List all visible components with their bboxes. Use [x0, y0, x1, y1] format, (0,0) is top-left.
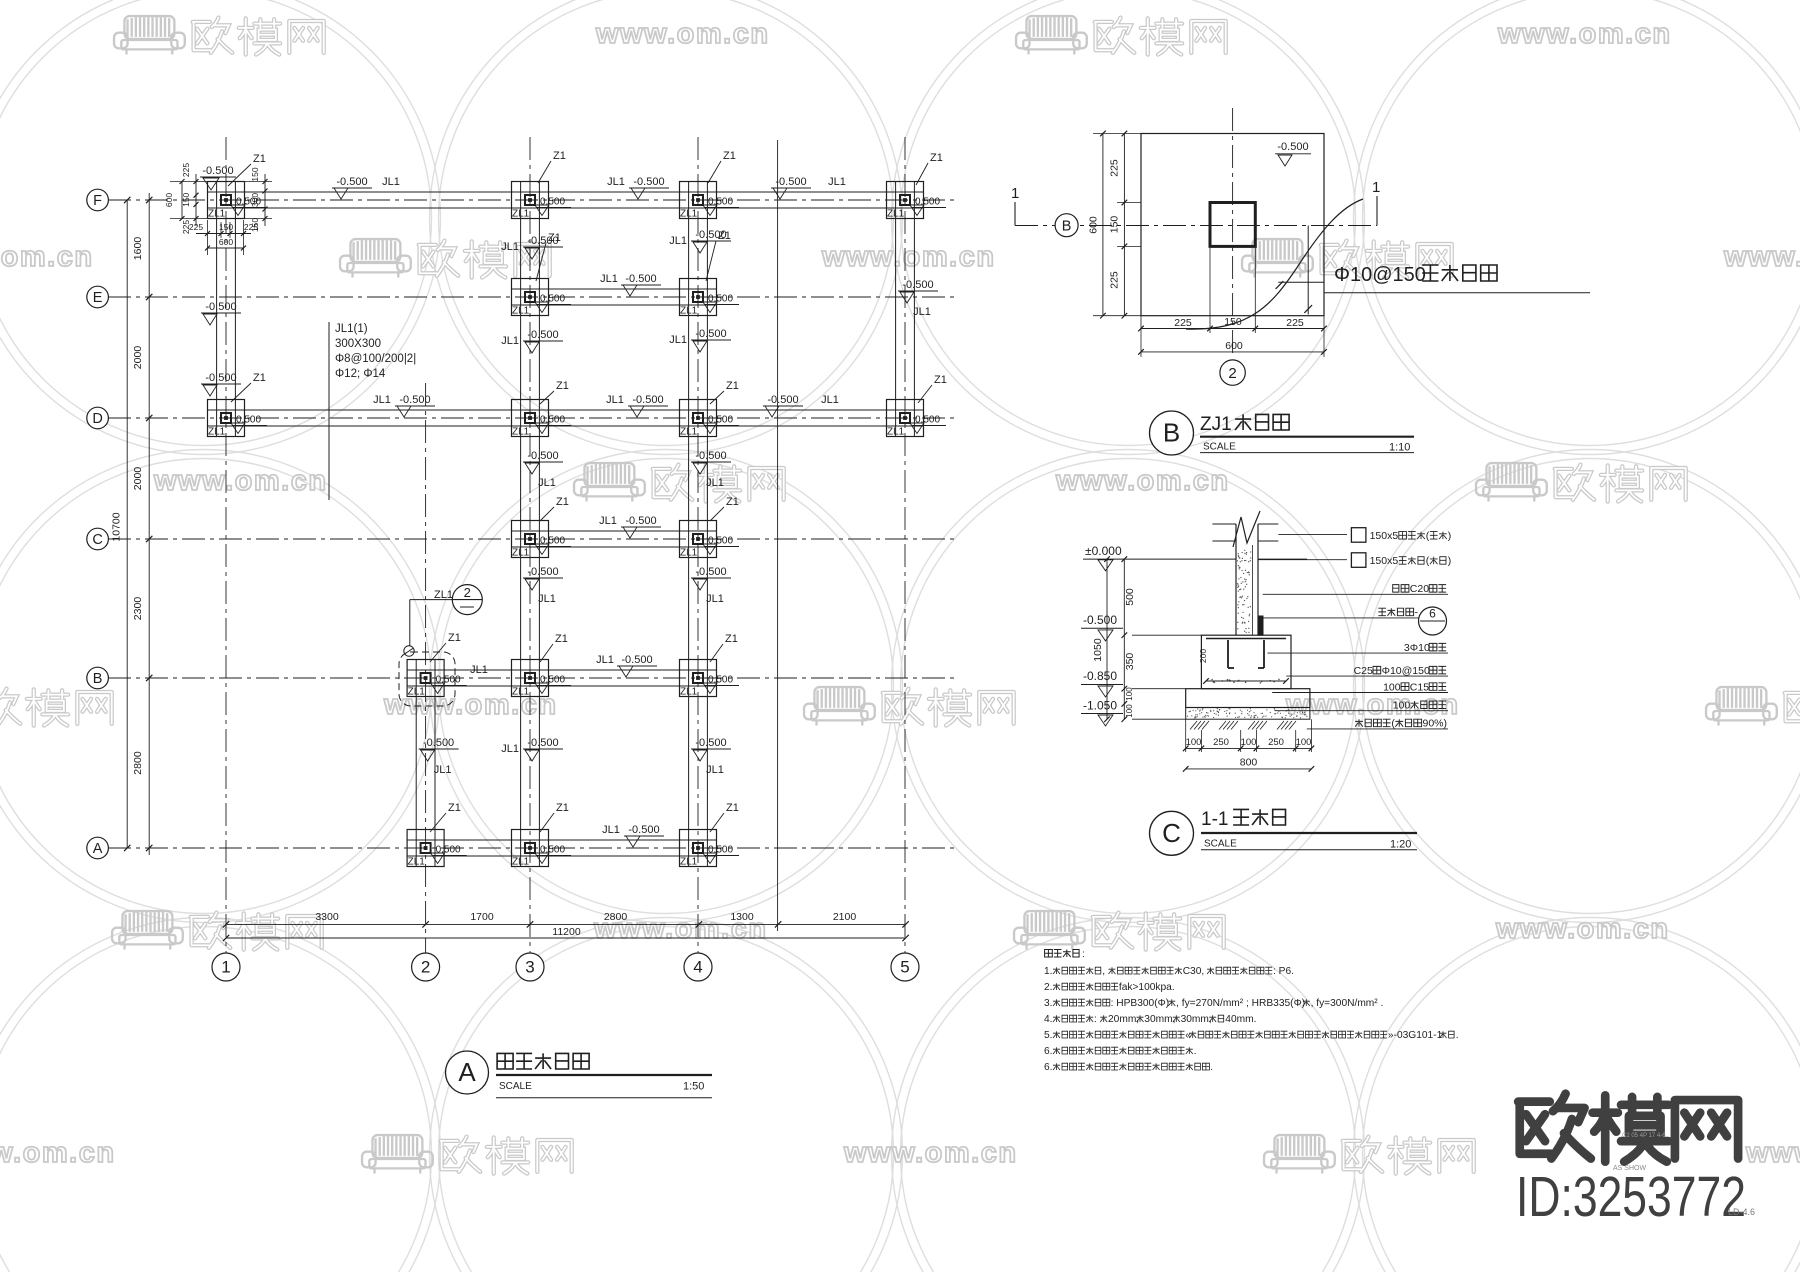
- beam level mark D 4-5: [763, 394, 839, 417]
- svg-text:0.500: 0.500: [540, 675, 565, 686]
- svg-text:3: 3: [525, 958, 534, 977]
- detail B dimension 600 left: [1088, 131, 1142, 319]
- beam level mark F 1-3: [332, 176, 400, 199]
- svg-text:-0.500: -0.500: [399, 394, 430, 406]
- svg-text:11200: 11200: [552, 926, 581, 938]
- svg-text:Z1: Z1: [723, 150, 736, 162]
- svg-text:600: 600: [219, 237, 233, 247]
- svg-text:SCALE: SCALE: [1204, 839, 1237, 850]
- svg-text:Z1: Z1: [448, 802, 461, 814]
- elevation mark at F1: [200, 165, 236, 190]
- grid line A: [108, 847, 958, 849]
- svg-text:2800: 2800: [132, 751, 144, 775]
- svg-text:JL1: JL1: [538, 477, 556, 489]
- svg-text:-0.500: -0.500: [621, 654, 652, 666]
- svg-text:JL1: JL1: [828, 176, 846, 188]
- beam JL1 grid 2: [416, 660, 435, 867]
- svg-text:0.500: 0.500: [915, 415, 940, 426]
- dimension column left (1600/2000/2000/2300/2800): [132, 193, 152, 855]
- svg-text:1: 1: [1011, 185, 1019, 202]
- grid line C: [108, 538, 958, 540]
- svg-text:-1.050: -1.050: [1083, 699, 1117, 713]
- callout ZL1 detail bubble 2: [399, 585, 482, 706]
- design note 4: [1044, 1014, 1256, 1025]
- svg-text:.: .: [1456, 1030, 1459, 1041]
- svg-text:www.om.cn: www.om.cn: [1055, 465, 1230, 497]
- column footing ZL1 at E3: [512, 279, 572, 317]
- svg-text:»-03G101-1: »-03G101-1: [1388, 1030, 1443, 1041]
- svg-text:Z1: Z1: [934, 374, 947, 386]
- detail B dimension 225/150/225 bottom: [1138, 248, 1327, 357]
- svg-text:JL1: JL1: [913, 306, 931, 318]
- svg-text:0.500: 0.500: [708, 415, 733, 426]
- section C leader 150x5 steel plate 2: [1258, 553, 1366, 568]
- svg-text:Z1: Z1: [930, 152, 943, 164]
- detail B footing pad outline: [1141, 134, 1324, 316]
- column footing ZL1 at E4: [680, 279, 740, 317]
- svg-text:-0.500: -0.500: [625, 273, 656, 285]
- svg-text:20mm,: 20mm,: [1108, 1014, 1139, 1025]
- svg-text:800: 800: [1240, 757, 1258, 769]
- svg-text:JL1: JL1: [669, 334, 687, 346]
- svg-text:3Φ10: 3Φ10: [1404, 642, 1430, 654]
- grid line 1: [225, 137, 227, 953]
- column footing ZL1 at C4: [680, 521, 740, 559]
- column footing ZL1 at A3: [512, 830, 572, 868]
- svg-text:225: 225: [181, 163, 191, 177]
- note JL1(1) spec: [329, 322, 416, 500]
- svg-text:-0.500: -0.500: [202, 165, 233, 177]
- svg-text:6: 6: [1429, 607, 1436, 621]
- grid bubble A: [87, 837, 109, 859]
- dimension total 10700: [111, 197, 131, 851]
- grid bubble 4: [684, 953, 712, 981]
- section C dimension 800: [1183, 757, 1314, 772]
- svg-text:: P6.: : P6.: [1273, 966, 1294, 977]
- svg-text:-0.500: -0.500: [902, 279, 933, 291]
- svg-text:JL1: JL1: [607, 176, 625, 188]
- svg-text:-0.500: -0.500: [695, 328, 726, 340]
- beam level mark F 3-4: [607, 176, 669, 199]
- svg-text:Φ12; Φ14: Φ12; Φ14: [335, 368, 386, 380]
- svg-text:6.: 6.: [1044, 1046, 1053, 1057]
- svg-text:, fy=300N/mm² .: , fy=300N/mm² .: [1311, 998, 1384, 1009]
- svg-text:«: «: [1185, 1030, 1191, 1041]
- svg-text:Z1: Z1: [556, 802, 569, 814]
- svg-text:6.: 6.: [1044, 1062, 1053, 1073]
- svg-text:): ): [1448, 555, 1452, 567]
- svg-text:-0.500: -0.500: [628, 824, 659, 836]
- grid bubble F: [87, 189, 109, 211]
- section C leader cushion: [1275, 700, 1448, 712]
- svg-text:,: ,: [1102, 966, 1105, 977]
- svg-text:: HPB300(Φ): : HPB300(Φ): [1111, 998, 1170, 1009]
- svg-text:0.500: 0.500: [708, 536, 733, 547]
- column footing ZL1 at D3: [512, 400, 572, 438]
- beam JL1 row B: [407, 670, 716, 686]
- column footing ZL1 at F4: [680, 182, 740, 220]
- svg-text:-0.500: -0.500: [527, 235, 558, 247]
- svg-text:JL1: JL1: [706, 764, 724, 776]
- svg-text:-0.500: -0.500: [423, 737, 454, 749]
- grid bubble E: [87, 286, 109, 308]
- svg-text:150x5: 150x5: [1370, 555, 1399, 567]
- svg-text:JL1: JL1: [501, 241, 519, 253]
- column label Z1: [228, 153, 266, 186]
- section C leader 3phi10: [1268, 642, 1449, 654]
- column footing ZL1 at B4: [680, 660, 740, 698]
- design note 2: [1044, 982, 1175, 993]
- section C gravel cushion: [1186, 708, 1310, 720]
- beam JL1 row E: [512, 289, 717, 305]
- svg-text:100: 100: [1383, 681, 1401, 693]
- grid line 2: [425, 383, 427, 953]
- column footing ZL1 at A4: [680, 830, 740, 868]
- dimension row bottom (3300/1700/2800/1300/2100): [223, 911, 909, 928]
- column label Z1: [536, 232, 561, 281]
- column label Z1: [708, 150, 736, 183]
- svg-text:2300: 2300: [132, 597, 144, 621]
- svg-text:-0.500: -0.500: [205, 301, 236, 313]
- beam level mark grid1 F-E: [201, 301, 241, 325]
- svg-text:40mm.: 40mm.: [1225, 1014, 1256, 1025]
- column footing ZL1 at D1: [208, 400, 268, 438]
- section C leader C20: [1263, 583, 1448, 595]
- svg-text:30mm,: 30mm,: [1181, 1014, 1212, 1025]
- svg-text:3.: 3.: [1044, 998, 1053, 1009]
- section C top break symbol: [1212, 511, 1278, 547]
- svg-text:1:10: 1:10: [1389, 442, 1410, 454]
- grid line F: [108, 199, 958, 201]
- svg-text:150: 150: [181, 192, 191, 206]
- svg-text:ZL1: ZL1: [680, 687, 698, 698]
- svg-text:300X300: 300X300: [335, 338, 381, 350]
- beam level mark grid2 B-A: [419, 737, 459, 776]
- svg-text:2100: 2100: [833, 911, 857, 923]
- svg-text:90%): 90%): [1423, 718, 1448, 730]
- intermediate grid line between 4 and 5: [777, 140, 779, 931]
- beam level mark A 3-4: [602, 824, 664, 847]
- svg-text:600: 600: [1225, 340, 1243, 352]
- svg-text:4: 4: [693, 958, 702, 977]
- detail B section mark 1 left: [1011, 185, 1019, 226]
- design note 6: [1044, 1046, 1196, 1057]
- svg-text:-0.500: -0.500: [1083, 613, 1117, 627]
- beam level mark grid4 D-C: [691, 450, 731, 489]
- svg-text:ZL1: ZL1: [680, 209, 698, 220]
- detail B dimension 225/150/225 left: [1109, 131, 1142, 319]
- detail B elevation -0.500: [1275, 141, 1311, 166]
- svg-text:150: 150: [1109, 216, 1121, 234]
- grid bubble 5: [891, 953, 919, 981]
- svg-text:ZL1: ZL1: [512, 687, 530, 698]
- svg-text:ID:3253772: ID:3253772: [1516, 1165, 1746, 1229]
- section C level line 0.000: [1083, 544, 1307, 571]
- svg-text:350: 350: [1124, 653, 1136, 671]
- section C footing block: [1201, 635, 1291, 689]
- svg-text:JL1: JL1: [669, 235, 687, 247]
- section C level -0.500: [1081, 613, 1201, 641]
- beam level mark grid4 F-E: [669, 229, 731, 253]
- column footing ZL1 at C3: [512, 521, 572, 559]
- section C dimension 100/250/100/250/100: [1183, 719, 1314, 752]
- svg-text:500: 500: [1124, 588, 1136, 606]
- svg-text:150x5: 150x5: [1370, 530, 1399, 542]
- svg-text:www.om.cn: www.om.cn: [1745, 1137, 1800, 1169]
- svg-text:2000: 2000: [132, 467, 144, 491]
- svg-text:Z1: Z1: [448, 632, 461, 644]
- svg-text:-0.500: -0.500: [695, 737, 726, 749]
- design notes heading: [1045, 949, 1085, 960]
- svg-text:ZJ1: ZJ1: [1200, 414, 1232, 435]
- svg-text:-0.500: -0.500: [205, 372, 236, 384]
- column label Z1: [710, 380, 739, 404]
- title block remnants: [1613, 1133, 1755, 1217]
- svg-text:ZL1: ZL1: [512, 306, 530, 317]
- svg-text:B: B: [1062, 219, 1072, 235]
- detail B rebar zone lines: [1276, 226, 1324, 315]
- column label Z1: [918, 374, 947, 403]
- beam JL1 row D: [208, 410, 924, 426]
- big watermark oumowang: [1518, 1094, 1591, 1159]
- svg-text:ZL1: ZL1: [512, 209, 530, 220]
- svg-text:C25: C25: [1354, 665, 1373, 677]
- column label Z1: [540, 496, 569, 521]
- section C dimension 1050: [1092, 556, 1110, 722]
- svg-text:Z1: Z1: [726, 380, 739, 392]
- svg-text:0.500: 0.500: [236, 415, 261, 426]
- svg-text:30mm,: 30mm,: [1144, 1014, 1175, 1025]
- svg-text:Z1: Z1: [726, 496, 739, 508]
- beam level mark grid1 E-D: [201, 372, 241, 396]
- beam level mark grid5 F-E: [898, 279, 938, 318]
- svg-text:Z1: Z1: [555, 633, 568, 645]
- svg-text:Z1: Z1: [253, 153, 266, 165]
- svg-text:5.: 5.: [1044, 1030, 1053, 1041]
- svg-text:Φ8@100/200|2|: Φ8@100/200|2|: [335, 353, 416, 365]
- detail B section mark 1 right: [1372, 179, 1380, 226]
- svg-text:225: 225: [244, 222, 258, 232]
- svg-text:www.om.cn: www.om.cn: [843, 1137, 1018, 1169]
- svg-text:-0.500: -0.500: [632, 394, 663, 406]
- beam level mark grid3 B-A: [501, 737, 563, 761]
- svg-text:Z1: Z1: [253, 372, 266, 384]
- column footing ZL1 at D4: [680, 400, 740, 438]
- beam label JL1 B 2-3: [470, 664, 488, 676]
- grid line 5: [904, 137, 906, 953]
- svg-text:B: B: [93, 671, 103, 687]
- svg-text:-0.500: -0.500: [1277, 141, 1308, 153]
- beam level mark grid3 C-B: [523, 566, 563, 605]
- svg-text:1-1: 1-1: [1201, 809, 1228, 830]
- column label Z1: [231, 372, 266, 402]
- svg-text:www.om.cn: www.om.cn: [0, 241, 94, 273]
- svg-text:E: E: [93, 290, 103, 306]
- section C soil hatch: [1190, 721, 1296, 730]
- svg-text:-0.500: -0.500: [695, 229, 726, 241]
- column label Z1: [540, 380, 569, 404]
- svg-text:F: F: [93, 193, 102, 209]
- svg-text:1600: 1600: [132, 237, 144, 261]
- detail B column section: [1210, 203, 1255, 247]
- svg-text:0.500: 0.500: [436, 845, 461, 856]
- detail B leader curve: [1186, 199, 1363, 329]
- svg-text:C30,: C30,: [1183, 966, 1205, 977]
- svg-text:ZL1: ZL1: [887, 427, 905, 438]
- svg-text:Z1: Z1: [726, 802, 739, 814]
- svg-text:100: 100: [1296, 737, 1312, 748]
- column label Z1: [540, 633, 568, 662]
- svg-text:JL1: JL1: [596, 654, 614, 666]
- section C footing rebar: [1198, 639, 1289, 684]
- svg-text:C: C: [92, 532, 102, 548]
- beam level mark C 3-4: [599, 515, 661, 538]
- grid line 3: [529, 137, 531, 953]
- beam level mark grid3 E-D: [501, 329, 563, 353]
- svg-text:ZL1: ZL1: [512, 548, 530, 559]
- svg-text:0.500: 0.500: [708, 294, 733, 305]
- beam level mark grid4 B-A: [691, 737, 731, 776]
- svg-text:1700: 1700: [470, 911, 494, 923]
- svg-text:ZL1: ZL1: [208, 427, 226, 438]
- beam JL1 row C: [512, 531, 717, 547]
- section C leader 150x5 steel plate 1: [1278, 528, 1366, 543]
- grid line E: [108, 296, 958, 298]
- section C embed plate: [1258, 616, 1263, 635]
- svg-text:JL1: JL1: [434, 764, 452, 776]
- svg-text::: :: [1094, 1014, 1097, 1025]
- beam JL1 grid 5: [896, 182, 915, 437]
- svg-text:JL1: JL1: [599, 515, 617, 527]
- svg-text:ZL1: ZL1: [208, 209, 226, 220]
- svg-text:JL1: JL1: [470, 664, 488, 676]
- svg-text:2: 2: [421, 958, 430, 977]
- svg-text:Z1: Z1: [553, 150, 566, 162]
- section C level -1.050: [1081, 699, 1186, 727]
- beam level mark grid3 F-E: [501, 235, 563, 259]
- svg-text:100: 100: [1125, 704, 1134, 718]
- svg-text:2: 2: [464, 585, 471, 600]
- grid line 4: [697, 137, 699, 953]
- svg-text:SCALE: SCALE: [499, 1081, 532, 1092]
- section C leader soil: [1307, 718, 1448, 730]
- column footing ZL1 at B2: [407, 660, 467, 698]
- column label Z1: [540, 802, 569, 832]
- svg-text:0.500: 0.500: [708, 845, 733, 856]
- svg-text:200: 200: [1198, 649, 1208, 663]
- grid bubble 1: [212, 953, 240, 981]
- beam JL1 grid 1: [217, 182, 236, 437]
- beam level mark grid3 D-C: [523, 450, 563, 489]
- svg-text:-0.500: -0.500: [527, 329, 558, 341]
- detail B center line vertical: [1232, 108, 1234, 355]
- column label Z1: [706, 230, 731, 281]
- svg-text:2000: 2000: [132, 346, 144, 370]
- svg-text:100: 100: [1186, 737, 1202, 748]
- svg-text:1:20: 1:20: [1390, 839, 1411, 851]
- svg-text:1: 1: [1372, 179, 1380, 196]
- svg-text:2: 2: [1228, 365, 1236, 382]
- svg-text:www.om.cn: www.om.cn: [1495, 913, 1670, 945]
- svg-text:225: 225: [1109, 271, 1121, 289]
- svg-text:www.om.cn: www.om.cn: [0, 1137, 116, 1169]
- column footing ZL1 at D5: [887, 400, 947, 438]
- column label Z1: [710, 802, 739, 832]
- svg-text:JL1: JL1: [538, 593, 556, 605]
- detail B grid bubble 2: [1220, 360, 1245, 385]
- svg-text:-0.850: -0.850: [1083, 669, 1117, 683]
- section C column stub: [1236, 524, 1258, 635]
- column label Z1: [430, 802, 461, 832]
- svg-text:C: C: [1162, 818, 1181, 848]
- column label Z1: [710, 633, 738, 662]
- svg-text:): ): [1448, 530, 1452, 542]
- svg-text:2.: 2.: [1044, 982, 1053, 993]
- svg-text:150: 150: [250, 167, 260, 181]
- column footing ZL1 at A2: [407, 830, 467, 868]
- svg-text:ZL1: ZL1: [680, 548, 698, 559]
- svg-text:Φ10@150: Φ10@150: [1334, 264, 1426, 286]
- svg-text:-0.500: -0.500: [625, 515, 656, 527]
- svg-text:ZL1: ZL1: [680, 427, 698, 438]
- section C base mat: [1186, 689, 1310, 708]
- design note 7: [1044, 1062, 1213, 1073]
- svg-text:-0.500: -0.500: [767, 394, 798, 406]
- svg-text:A: A: [93, 841, 103, 857]
- design note 3: [1044, 998, 1383, 1009]
- svg-text:10700: 10700: [111, 512, 123, 541]
- svg-text:100: 100: [1241, 737, 1257, 748]
- svg-text:-0.500: -0.500: [695, 450, 726, 462]
- svg-text:250: 250: [1213, 737, 1229, 748]
- svg-text:JL1: JL1: [382, 176, 400, 188]
- svg-text:0.500: 0.500: [540, 845, 565, 856]
- title A: foundation plan: [446, 1051, 713, 1098]
- beam JL1 row F: [208, 192, 924, 208]
- svg-text:-: -: [1415, 607, 1419, 619]
- beam JL1 row A: [407, 840, 716, 856]
- detail B rebar note: [1324, 264, 1590, 293]
- svg-text:0.500: 0.500: [540, 197, 565, 208]
- svg-text:-0.500: -0.500: [527, 450, 558, 462]
- beam level mark E 3-4: [600, 273, 661, 296]
- svg-text:SCALE: SCALE: [1203, 442, 1236, 453]
- beam level mark B 3-4: [596, 654, 657, 677]
- svg-text:D: D: [92, 411, 102, 427]
- beam level mark F 4-5: [771, 176, 846, 199]
- svg-text:5: 5: [900, 958, 909, 977]
- svg-text:.: .: [1210, 1062, 1213, 1073]
- svg-text:100: 100: [1125, 687, 1134, 701]
- svg-text::: :: [1082, 949, 1085, 960]
- column label Z1: [710, 496, 739, 521]
- svg-text:JL1: JL1: [501, 335, 519, 347]
- design note 1: [1044, 966, 1294, 977]
- svg-text:0.500: 0.500: [708, 675, 733, 686]
- svg-text:-0.500: -0.500: [775, 176, 806, 188]
- svg-text:www.om.cn: www.om.cn: [595, 18, 770, 50]
- svg-text:JL1: JL1: [501, 743, 519, 755]
- section C dimension 500/350/100/100: [1122, 556, 1137, 722]
- title B: ZJ1 plan: [1150, 411, 1415, 455]
- svg-text:(: (: [1426, 530, 1430, 542]
- svg-text:-0.500: -0.500: [336, 176, 367, 188]
- column label Z1: [538, 150, 566, 183]
- svg-text:B: B: [1163, 418, 1180, 448]
- svg-text:JL1: JL1: [600, 273, 618, 285]
- svg-text:JL1: JL1: [706, 593, 724, 605]
- svg-text:225: 225: [1109, 159, 1121, 177]
